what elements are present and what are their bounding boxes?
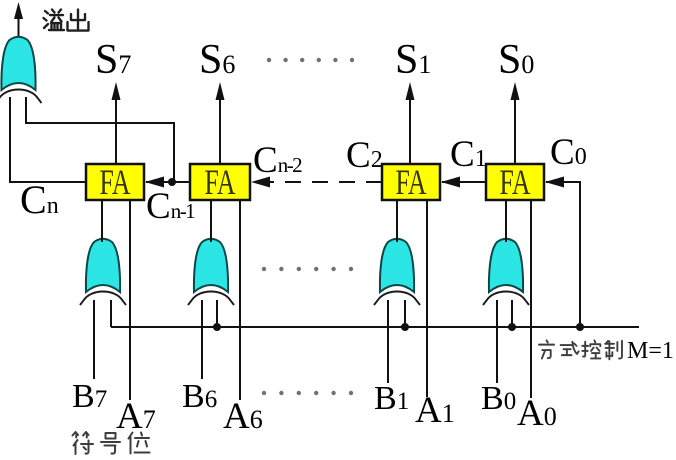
wire XOR bit1 M input (404, 300, 406, 327)
wire S1 output (409, 96, 411, 164)
ellipsis dots middle (262, 267, 353, 271)
svg-text:S6: S6 (199, 37, 235, 83)
wire S7 output (115, 96, 117, 164)
wire A1 input (426, 200, 428, 397)
wire mode control M line (111, 326, 639, 328)
junction node XOR bit0 on M line (508, 323, 516, 331)
XOR gate bit6 input (188, 239, 234, 305)
svg-text:S0: S0 (498, 37, 534, 83)
junction node C0 on M line (576, 323, 584, 331)
label 符号位 (sign bit) (73, 432, 150, 454)
arrowhead C1 (441, 177, 460, 188)
svg-text:M=1: M=1 (627, 338, 674, 364)
wire A7 input (129, 200, 131, 400)
svg-text:C1: C1 (450, 134, 487, 175)
wire carry C0 into FA bit0 (546, 182, 580, 327)
svg-text:FA: FA (500, 162, 531, 202)
wire overflow left input from Cn (10, 97, 86, 182)
svg-text:FA: FA (205, 162, 236, 202)
wire S0 output (514, 96, 516, 164)
wire B6 input (201, 300, 203, 379)
arrowhead Cn-2 (251, 177, 270, 188)
ellipsis dots bottom (262, 391, 353, 395)
junction node XOR bit6 on M line (213, 323, 221, 331)
arrowhead C0 (545, 177, 564, 188)
wire B1 input (387, 300, 389, 383)
arrowhead S1 (406, 82, 415, 100)
full adder FA bit6 (190, 162, 250, 202)
arrowhead S0 (511, 82, 520, 100)
wire S6 output (219, 96, 221, 164)
svg-text:Cn: Cn (20, 177, 59, 222)
XOR gate bit0 input (483, 239, 529, 305)
arrowhead Cn-1 (145, 177, 164, 188)
wire FA7 B-input pin (101, 200, 103, 242)
wire A0 input (530, 200, 532, 398)
label 溢出 (overflow) (44, 10, 89, 31)
svg-text:B6: B6 (182, 378, 217, 415)
XOR gate overflow detector (0, 37, 42, 103)
wire overflow right input from Cn-1 node (26, 97, 174, 182)
svg-text:S1: S1 (395, 37, 431, 83)
svg-text:C2: C2 (346, 135, 383, 176)
full adder FA bit0 (486, 162, 544, 202)
wire FA0 B-input pin (505, 200, 507, 242)
ellipsis dots top (267, 58, 354, 62)
svg-text:FA: FA (100, 162, 131, 202)
svg-text:B1: B1 (374, 380, 409, 417)
wire B7 input (93, 300, 95, 379)
arrowhead S7 (112, 82, 121, 100)
svg-text:C0: C0 (550, 132, 587, 173)
wire XOR bit0 M input (511, 300, 513, 327)
wire carry Cn-2 dashed into FA bit6 (266, 181, 382, 183)
wire A6 input (239, 200, 241, 400)
svg-text:Cn-1: Cn-1 (146, 186, 195, 227)
svg-text:A0: A0 (517, 393, 557, 434)
svg-text:B7: B7 (72, 378, 107, 415)
svg-text:S7: S7 (95, 37, 131, 83)
svg-text:A7: A7 (116, 396, 156, 437)
wire FA1 B-input pin (396, 200, 398, 242)
arrowhead overflow output (14, 2, 23, 19)
svg-text:A6: A6 (223, 396, 263, 437)
XOR gate bit7 input (80, 239, 126, 305)
wire carry C1 into FA bit1 (442, 181, 486, 183)
full adder FA bit1 (382, 162, 440, 202)
wire XOR bit6 M input (216, 300, 218, 327)
full adder FA bit7 (86, 162, 144, 202)
svg-text:B0: B0 (481, 380, 516, 417)
wire FA6 B-input pin (210, 200, 212, 242)
label 方式控制M=1 (mode control) (539, 340, 622, 359)
svg-text:FA: FA (396, 162, 427, 202)
junction node Cn-1 (168, 178, 176, 186)
XOR gate bit1 input (374, 239, 420, 305)
junction node XOR bit1 on M line (401, 323, 409, 331)
wire XOR bit7 M input (110, 300, 112, 327)
arrowhead S6 (216, 82, 225, 100)
svg-text:Cn-2: Cn-2 (253, 140, 302, 181)
wire overflow output (18, 16, 20, 36)
wire carry Cn-1 into FA bit7 (146, 181, 190, 183)
wire B0 input (496, 300, 498, 383)
svg-text:A1: A1 (415, 390, 455, 431)
